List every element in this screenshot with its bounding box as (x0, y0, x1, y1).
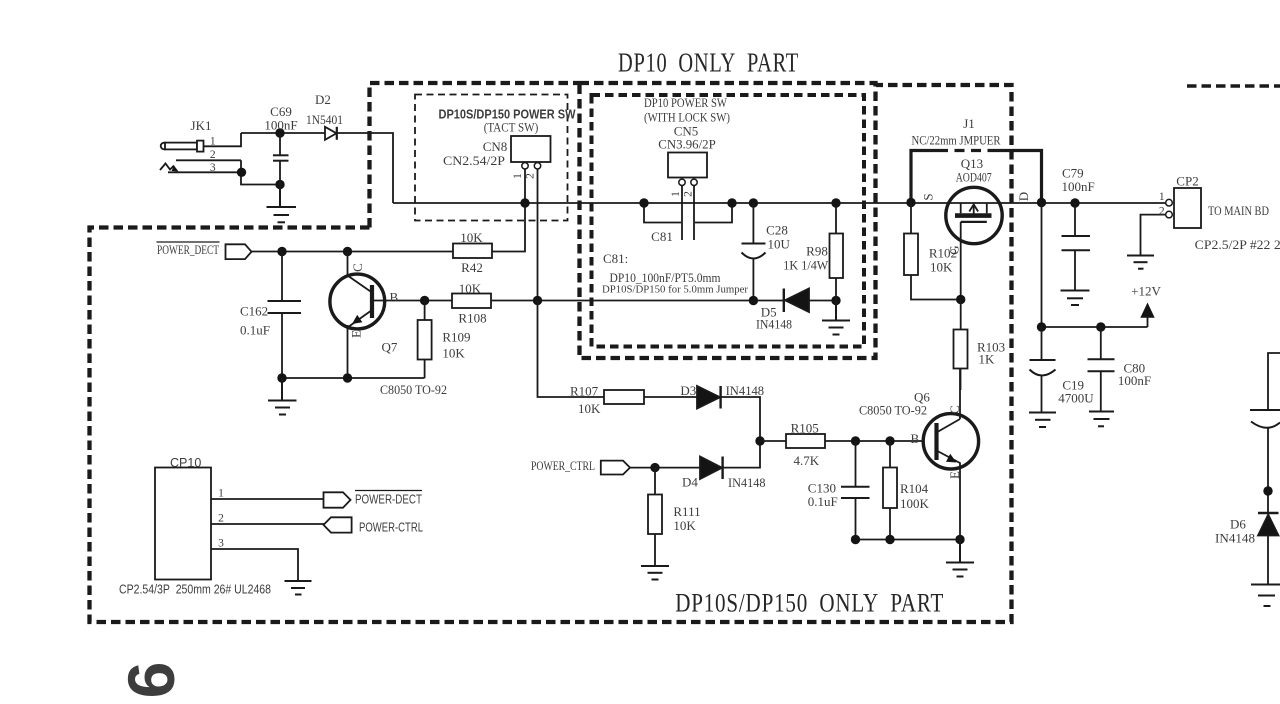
wire JK1 pin1 to node (204, 133, 242, 146)
resistor R109 (418, 301, 432, 379)
jumper J1 NC/22mm (911, 151, 1042, 203)
junction C80 top (1096, 322, 1105, 331)
svg-text:CN8: CN8 (483, 139, 508, 154)
svg-text:C8050 TO-92: C8050 TO-92 (859, 402, 927, 417)
wire Q7 base rail (372, 300, 452, 302)
junction D5 R98 bottom (831, 296, 840, 305)
wire Q6 base rail (760, 440, 937, 442)
wire D2 to rail corner (337, 133, 393, 203)
svg-text:1: 1 (512, 173, 524, 179)
ground below D6 (1251, 585, 1280, 607)
svg-text:CP2.54/3P 250mm 26# UL2468: CP2.54/3P 250mm 26# UL2468 (119, 583, 271, 597)
resistor R111 (648, 468, 662, 566)
svg-text:IN4148: IN4148 (726, 383, 765, 398)
svg-text:10K: 10K (442, 346, 465, 361)
svg-text:C162: C162 (240, 304, 268, 319)
svg-text:R104: R104 (900, 481, 929, 496)
wire CP10 pin3 to ground (211, 549, 298, 581)
svg-text:J1: J1 (963, 116, 975, 131)
junction C130 bottom (851, 535, 860, 544)
svg-text:CP2.5/2P #22 2: CP2.5/2P #22 2 (1195, 237, 1280, 252)
junction C162 bottom (277, 373, 286, 382)
svg-text:CP2: CP2 (1176, 174, 1198, 189)
wire sleeve to C69 bottom (241, 172, 280, 184)
resistor R104 (883, 441, 897, 540)
diode D2 (325, 127, 337, 140)
svg-text:B: B (390, 290, 399, 305)
capacitor right edge polarized (1250, 410, 1280, 513)
junction CN8 pin1 rail (520, 198, 529, 207)
junction R104 top (885, 436, 894, 445)
svg-text:1: 1 (218, 488, 224, 500)
svg-text:10K: 10K (673, 518, 696, 533)
svg-text:CN3.96/2P: CN3.96/2P (658, 136, 716, 151)
power +12V arrow (1140, 303, 1154, 328)
wire node A to D2 (241, 132, 325, 134)
dashed box DP10 ONLY PART outer (580, 83, 876, 358)
capacitor C162 (268, 252, 302, 379)
wire Q7 emitter down (347, 325, 349, 378)
diode D4 (700, 457, 723, 480)
pin 1 circle CN8 (522, 163, 528, 169)
svg-text:R42: R42 (461, 260, 483, 275)
svg-text:C: C (947, 405, 962, 414)
svg-text:POWER_DECT: POWER_DECT (157, 242, 219, 257)
wire R107 to D3 (644, 396, 697, 398)
diode D6 (1258, 513, 1279, 584)
resistor R42 (453, 244, 492, 259)
svg-text:C81:: C81: (603, 251, 628, 266)
ground below R111 (641, 566, 669, 580)
ground below C80 (1089, 412, 1114, 427)
ground below C79 (1061, 291, 1090, 306)
junction C69 bottom (275, 180, 284, 189)
wire right edge net (1268, 353, 1280, 410)
transistor Q13 AOD407 mosfet (946, 187, 1002, 243)
diode D5 (784, 289, 836, 313)
resistor R105 (786, 434, 825, 448)
resistor R103 (954, 300, 968, 391)
wire CN8 pin2 to R107 (538, 301, 605, 398)
svg-text:100nF: 100nF (1118, 373, 1151, 388)
wire CN8 pin1 down (524, 169, 526, 203)
svg-text:R111: R111 (673, 504, 700, 519)
wire CP10 pin2 (211, 523, 324, 525)
svg-text:2: 2 (210, 149, 216, 161)
svg-text:D3: D3 (680, 383, 696, 398)
svg-text:100K: 100K (900, 496, 930, 511)
svg-text:6: 6 (114, 662, 188, 699)
svg-text:R98: R98 (806, 244, 828, 259)
node POWER_CTRL flag (601, 461, 630, 475)
ground below CP2 pin2 (1127, 256, 1154, 269)
svg-text:3: 3 (218, 538, 224, 550)
junction CN8 pin2 low rail (533, 296, 542, 305)
svg-text:DP10 ONLY PART: DP10 ONLY PART (618, 48, 799, 78)
svg-text:1: 1 (210, 136, 216, 148)
dashed box DP10S/DP150 POWER SW (TACT SW) (415, 95, 568, 221)
wire C81 right bracket (695, 203, 732, 223)
svg-text:CN2.54/2P: CN2.54/2P (443, 153, 505, 168)
junction R98 top (831, 198, 840, 207)
svg-text:R105: R105 (791, 420, 819, 435)
svg-text:POWER-CTRL: POWER-CTRL (359, 521, 423, 535)
capacitor C19 polarized (1030, 327, 1056, 412)
svg-text:R108: R108 (458, 311, 486, 326)
wire Q6 emitter down (959, 463, 961, 540)
wire CP2 pin2 to ground (1141, 215, 1166, 255)
svg-text:1N5401: 1N5401 (306, 112, 343, 127)
junction C69 top (275, 128, 284, 137)
svg-text:DP10S/DP150 for 5.0mm Jumper: DP10S/DP150 for 5.0mm Jumper (602, 284, 748, 296)
resistor R107 (604, 390, 644, 404)
junction R109 top (420, 296, 429, 305)
junction J1 left rail (906, 198, 915, 207)
svg-text:(TACT SW): (TACT SW) (484, 120, 539, 135)
junction C79 top (1070, 198, 1079, 207)
POWER_DECT overline (157, 241, 220, 243)
pin 2 circle CP2 (1166, 211, 1173, 218)
capacitor C81 plate pin1 wire (681, 186, 683, 241)
dashed box DP10 POWER SW inner (592, 95, 865, 347)
svg-text:C: C (350, 263, 365, 272)
transistor Q7 C8050 (330, 274, 385, 329)
svg-text:(WITH LOCK SW): (WITH LOCK SW) (644, 110, 730, 125)
svg-text:POWER-DECT: POWER-DECT (355, 493, 422, 507)
pin 2 circle CN5 (691, 179, 697, 185)
node POWER-CTRL flag at CP10 (324, 517, 352, 532)
capacitor C130 (841, 441, 870, 540)
svg-text:1: 1 (670, 191, 682, 197)
junction C19 top (1037, 322, 1046, 331)
svg-text:+12V: +12V (1131, 284, 1161, 299)
ground below C162 (268, 378, 297, 415)
svg-text:IN4148: IN4148 (1215, 531, 1255, 546)
junction C130 top (851, 436, 860, 445)
wire R42 to CN8 pin1 (492, 203, 525, 252)
svg-text:3: 3 (210, 162, 216, 174)
svg-text:D6: D6 (1230, 517, 1246, 532)
svg-text:0.1uF: 0.1uF (240, 323, 270, 338)
svg-text:C28: C28 (766, 223, 788, 238)
junction C162 top (277, 247, 286, 256)
junction R111 top (650, 463, 659, 472)
pin 1 circle CN5 (679, 179, 685, 185)
junction gate R102 R103 (956, 295, 965, 304)
resistor R102 (904, 203, 961, 300)
svg-text:D4: D4 (682, 474, 698, 489)
svg-text:DP10S/DP150 ONLY PART: DP10S/DP150 ONLY PART (675, 589, 944, 618)
wire POWER_CTRL to D4 (630, 467, 700, 469)
svg-text:IN4148: IN4148 (728, 475, 766, 490)
junction C28 bottom (749, 296, 758, 305)
svg-text:C8050 TO-92: C8050 TO-92 (380, 382, 447, 397)
svg-text:IN4148: IN4148 (756, 317, 792, 332)
ground below Q6 (946, 540, 974, 577)
dashed line top right (1187, 84, 1280, 87)
svg-text:100nF: 100nF (1062, 179, 1095, 194)
svg-text:DP10 POWER SW: DP10 POWER SW (644, 95, 728, 110)
dashed box DP10S/DP150 ONLY PART region (90, 85, 1012, 622)
junction sleeve corner (237, 168, 246, 177)
capacitor C69 (273, 133, 289, 185)
svg-text:B: B (911, 431, 920, 446)
node POWER_DECT flag (226, 244, 252, 259)
svg-text:4700U: 4700U (1058, 391, 1094, 406)
svg-text:100nF: 100nF (264, 118, 297, 133)
svg-text:1K: 1K (979, 352, 996, 367)
diode D3 (697, 386, 721, 409)
dashed box jack region arm (370, 83, 580, 228)
wire CP10 pin1 (211, 498, 324, 500)
capacitor C80 (1088, 327, 1115, 411)
svg-text:TO MAIN BD: TO MAIN BD (1208, 203, 1269, 218)
connector JK1 sleeve contact (168, 160, 241, 172)
POWER-DECT overline at CP10 (355, 490, 422, 492)
junction C28 top (749, 198, 758, 207)
wire bottom rail Q6 (856, 539, 961, 541)
pin 1 circle CP2 (1166, 199, 1173, 206)
junction C81 left (639, 198, 648, 207)
wire D3 to junction (721, 397, 760, 441)
svg-text:4.7K: 4.7K (793, 453, 819, 468)
svg-text:2: 2 (683, 191, 695, 197)
svg-text:AOD407: AOD407 (956, 170, 992, 185)
svg-text:10K: 10K (460, 230, 483, 245)
svg-text:1: 1 (1159, 191, 1165, 203)
junction D3 D4 R105 (755, 436, 764, 445)
svg-text:NC/22mm JMPUER: NC/22mm JMPUER (912, 132, 1001, 147)
junction R104 bottom (885, 535, 894, 544)
wire bottom left rail (282, 377, 425, 379)
connector CN8 body (511, 136, 551, 162)
svg-text:1K 1/4W: 1K 1/4W (783, 257, 829, 272)
wire main switch rail (393, 202, 1166, 204)
JK1 sleeve wiper arrow (160, 164, 179, 172)
wire +12V rail (1042, 326, 1148, 328)
resistor R108 (452, 294, 491, 309)
junction Q7 emitter bottom (343, 373, 352, 382)
pin 2 circle CN8 (534, 163, 540, 169)
node POWER-DECT flag at CP10 (324, 492, 351, 507)
transistor Q6 C8050 (923, 414, 978, 469)
svg-text:POWER_CTRL: POWER_CTRL (531, 458, 595, 473)
capacitor C81 plate pin2 wire (693, 186, 695, 241)
wire C81 left bracket (644, 203, 681, 223)
svg-text:2: 2 (1159, 205, 1165, 217)
junction J1 right rail (1037, 198, 1046, 207)
svg-text:C81: C81 (651, 229, 673, 244)
svg-text:R102: R102 (929, 246, 957, 261)
junction right edge net (1263, 486, 1272, 495)
wire POWER_DECT rail (252, 251, 454, 253)
junction Q7 collector (343, 247, 352, 256)
svg-text:10U: 10U (768, 237, 791, 252)
ground below D5 (822, 301, 850, 335)
connector CP2 body (1174, 188, 1201, 228)
junction C81 right (727, 198, 736, 207)
wire Q13 gate down (960, 222, 962, 300)
svg-text:D2: D2 (315, 92, 331, 107)
ground below C69 (267, 185, 297, 223)
svg-text:Q7: Q7 (382, 340, 398, 355)
svg-text:2: 2 (525, 173, 537, 179)
connector CP10 body (155, 468, 211, 580)
svg-text:E: E (349, 330, 364, 338)
wire R108 to D5 rail (491, 300, 784, 302)
svg-text:10K: 10K (459, 281, 482, 296)
svg-text:S: S (921, 193, 936, 200)
ground below CP10 pin3 (285, 581, 312, 595)
connector JK1 plug symbol (161, 141, 204, 152)
svg-text:10K: 10K (578, 401, 601, 416)
capacitor C28 polarized (742, 203, 766, 301)
wire Q7 collector up (347, 252, 349, 276)
svg-text:CP10: CP10 (170, 456, 201, 470)
wire Q6 collector up (959, 369, 961, 420)
junction Q6 emitter bottom (955, 535, 964, 544)
svg-text:E: E (947, 471, 962, 479)
svg-text:R109: R109 (442, 330, 470, 345)
wire CN8 pin2 down (537, 169, 539, 301)
ground below C19 (1029, 413, 1056, 428)
capacitor C79 (1062, 203, 1091, 290)
wire J1 right down to +12V rail (1041, 203, 1043, 328)
wire D4 to junction (723, 441, 760, 468)
svg-text:0.1uF: 0.1uF (808, 494, 838, 509)
svg-text:10K: 10K (930, 260, 953, 275)
connector CN5 body (668, 153, 707, 178)
svg-text:JK1: JK1 (191, 118, 212, 133)
svg-text:2: 2 (218, 513, 224, 525)
resistor R98 (830, 203, 844, 301)
svg-text:D: D (1016, 192, 1031, 201)
svg-text:R107: R107 (570, 384, 599, 399)
